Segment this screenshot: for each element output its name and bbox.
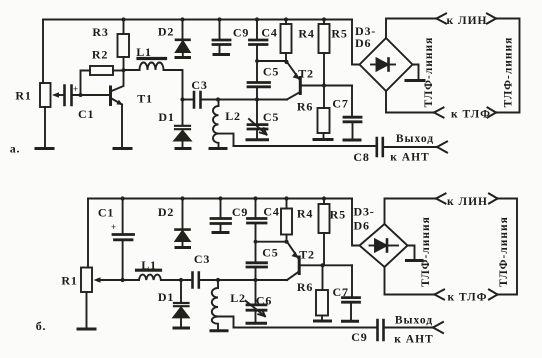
arrow к ТЛФ left (434, 108, 444, 118)
ground D1 B (174, 327, 189, 330)
wire L1 to C3 B (161, 279, 192, 281)
svg-text:C4: C4 (261, 26, 277, 40)
svg-text:C8: C8 (353, 150, 369, 164)
wire R3 top lead (123, 20, 125, 35)
svg-text:R4: R4 (297, 207, 313, 221)
wire D2 lead (182, 20, 184, 40)
svg-text:C5: C5 (263, 110, 279, 124)
arrow output (437, 142, 447, 153)
svg-text:R5: R5 (330, 208, 346, 222)
wire C7 bottom lead (352, 123, 354, 138)
wire C1 lead B (122, 199, 124, 234)
ground R6 B (315, 320, 331, 323)
svg-text:C5: C5 (262, 246, 278, 260)
wire D2 anode lead (182, 52, 184, 56)
labels circuit A (10, 15, 515, 164)
svg-text:ТЛФ-линия: ТЛФ-линия (498, 216, 510, 287)
svg-text:T2: T2 (298, 67, 314, 81)
wire bridge top to line (386, 19, 437, 39)
node base R5 R6 (322, 83, 326, 87)
labels circuit B (36, 196, 510, 346)
node R4 rail B (284, 196, 288, 200)
diode D2 cathode bar B (176, 228, 190, 231)
svg-text:R3: R3 (92, 25, 108, 39)
node emitter R4 (284, 60, 288, 64)
svg-text:+: + (111, 222, 116, 232)
diode D1 triangle B (174, 308, 189, 318)
capacitor C4 plates (250, 40, 268, 45)
ground trimmer C6 B (247, 322, 266, 325)
wire rail to bridge (352, 20, 360, 65)
wire R6 bottom lead (323, 133, 325, 138)
bridge diode lead right B (387, 245, 398, 247)
wire left vertical B (87, 199, 89, 268)
wire R4 bottom lead B (286, 235, 288, 242)
node D2 rail (180, 17, 184, 21)
resistor R5 body B (319, 204, 330, 233)
ground trimmer C5 (247, 138, 268, 141)
node D2 rail B (180, 196, 184, 200)
arrow к ЛИН right (487, 14, 496, 24)
svg-text:L2: L2 (225, 109, 241, 123)
svg-text:R2: R2 (92, 48, 108, 62)
ground C7 B (343, 320, 358, 323)
transistor T2 base wire (302, 85, 353, 87)
wire bottom rail B (234, 327, 377, 329)
wire R4 top lead B (286, 199, 288, 209)
svg-text:C9: C9 (351, 330, 367, 344)
arrow к ЛИН right B (489, 194, 498, 204)
svg-text:C7: C7 (333, 285, 349, 299)
bridge diode triangle (377, 59, 389, 71)
resistor R1 body B (81, 268, 92, 293)
wire R6 top lead B (322, 265, 324, 290)
resistor R3 body (118, 34, 130, 57)
resistor R5 body (319, 24, 330, 53)
wire signal line B (200, 279, 287, 281)
resistor R6 body B (316, 290, 328, 316)
bridge D3-D6 diamond (360, 38, 413, 91)
trimmer C5 arrow (249, 119, 267, 135)
svg-text:б.: б. (36, 319, 47, 333)
bridge D3-D6 diamond B (360, 224, 408, 267)
svg-text:C5: C5 (263, 65, 279, 79)
transistor T2 emitter B (287, 242, 299, 259)
wire R1 bottom lead B (86, 292, 88, 328)
wire R2 right lead (113, 70, 124, 72)
wire rail to bridge B (352, 199, 360, 246)
wire C5 bottom lead (256, 88, 258, 100)
node C4 rail B (253, 196, 257, 200)
trimmer capacitor C6 plates B (247, 305, 266, 310)
capacitor C3 plates (194, 92, 201, 108)
wire C9 lead B (220, 199, 222, 218)
arrow output B (433, 322, 443, 333)
inductor L2 coil (213, 100, 219, 148)
trimmer capacitor C5 plates (248, 125, 267, 129)
arrowhead R1 wiper B (94, 277, 101, 283)
capacitor C5 plates B (247, 263, 267, 267)
svg-text:L1: L1 (136, 45, 152, 59)
svg-text:R1: R1 (61, 274, 77, 288)
node C5 signal (255, 97, 259, 101)
node base R2 (79, 93, 83, 97)
bridge diode lead left B (370, 245, 376, 247)
wire wiper B (100, 279, 140, 281)
node C4 R4 B (254, 240, 258, 244)
wire bridge bottom B (385, 267, 435, 295)
wire C9 to antenna B (385, 327, 434, 329)
svg-text:а.: а. (10, 142, 21, 156)
transistor T1 base bar (109, 87, 112, 105)
wire signal line (183, 99, 288, 101)
wire R4 bottom lead (285, 53, 287, 62)
svg-text:R1: R1 (15, 89, 31, 103)
inductor L1 coil (140, 63, 164, 70)
arrowhead T1 emitter (116, 100, 123, 105)
svg-text:Выход: Выход (395, 315, 433, 327)
node R5 rail B (322, 196, 326, 200)
wire R3 bottom lead (123, 57, 125, 71)
ground bridge B (407, 259, 423, 262)
svg-text:к ТЛФ: к ТЛФ (448, 292, 488, 304)
capacitor C1 plates B (113, 235, 134, 240)
bridge diode cathode bar (387, 59, 390, 71)
wire C9 bottom lead B (220, 225, 222, 231)
wire C4 to C5 (256, 61, 258, 81)
arrowhead T2 emitter (293, 73, 300, 79)
ground T1 (114, 147, 131, 150)
trimmer C6 arrow B (246, 301, 266, 316)
wire D1 anode B (180, 317, 182, 326)
inductor L2 coil B (212, 280, 218, 329)
svg-text:D3-: D3- (354, 205, 375, 219)
resistor R2 body (90, 66, 113, 75)
arrow к ТЛФ right B (489, 290, 498, 300)
arrowhead T2 emitter B (292, 252, 299, 258)
junction dots circuit B (94, 196, 327, 282)
node base R5 R6 B (320, 263, 324, 267)
svg-text:C3: C3 (191, 78, 207, 92)
ground D1 (176, 147, 190, 150)
wire C4 to C5 B (255, 242, 257, 262)
svg-text:D6: D6 (355, 36, 371, 50)
wire top rail (43, 19, 352, 21)
wire bridge ground B (408, 246, 415, 259)
resistor R6 body (318, 108, 330, 133)
node C4 rail (255, 17, 259, 21)
svg-text:T2: T2 (299, 248, 315, 262)
transistor T2 emitter (287, 62, 300, 80)
wire C1 to base node (73, 94, 110, 96)
wire C7 top lead B (351, 265, 353, 296)
wire R4 top lead (285, 20, 287, 25)
junction dots circuit A (52, 17, 326, 105)
bridge diode cathode bar B (386, 240, 389, 252)
transistor T2 base wire B (300, 264, 352, 266)
wire R2 left vertical (81, 71, 91, 96)
ground R1 B (78, 328, 95, 331)
node R3 rail (121, 17, 125, 21)
wire bottom rail (234, 145, 377, 147)
wire D1 anode lead (182, 141, 184, 148)
svg-text:D2: D2 (158, 25, 174, 39)
transistor T1 collector (112, 71, 124, 92)
ground D2 B (176, 246, 190, 249)
ground R6 (314, 138, 332, 141)
transistor T2 collector (287, 92, 300, 100)
capacitor C3 plates B (193, 273, 199, 288)
wire C5 bottom lead B (255, 268, 257, 280)
svg-text:D1: D1 (158, 110, 174, 124)
svg-text:R6: R6 (297, 100, 313, 114)
svg-text:ТЛФ-линия: ТЛФ-линия (503, 37, 515, 108)
capacitor C9 plates (213, 40, 230, 45)
transistor T2 collector B (287, 272, 299, 281)
wire C4 to emitter node (257, 46, 287, 61)
inductor L1 core bar (138, 57, 166, 60)
svg-text:D6: D6 (354, 219, 370, 233)
wire right loop B (498, 199, 518, 295)
node R4 rail (284, 17, 288, 21)
wire R5 bottom lead (323, 53, 325, 86)
bridge diode triangle B (375, 240, 387, 252)
wire C4 to node B (256, 225, 288, 242)
svg-text:L2: L2 (230, 291, 246, 305)
svg-text:D1: D1 (158, 290, 174, 304)
svg-text:C1: C1 (78, 107, 94, 121)
diode D1 triangle (175, 131, 191, 141)
transistor T2 base bar (299, 78, 302, 94)
arrow к ТЛФ right (488, 108, 497, 118)
node C9 rail (217, 17, 221, 21)
svg-text:+: + (73, 84, 78, 94)
svg-text:R6: R6 (297, 280, 313, 294)
wire D1 lead (182, 100, 184, 126)
wire R5 top lead (323, 20, 325, 25)
node C5 signal B (253, 278, 257, 282)
wire bridge bottom to tlf (386, 91, 434, 113)
node emitter R4 B (284, 240, 288, 244)
arrow к ТЛФ left B (435, 290, 445, 300)
resistor R1 (potentiometer body) (40, 83, 51, 107)
node C1 rail B (121, 196, 125, 200)
svg-text:C7: C7 (332, 97, 348, 111)
transistor T2 base bar B (298, 257, 301, 274)
wire bridge ground (413, 65, 419, 80)
wire C4 lead (256, 20, 258, 39)
wire R5 bottom lead B (323, 233, 325, 265)
capacitor C7 plates (344, 117, 361, 122)
wire trimmer bottom lead (256, 130, 258, 138)
node collector L1 (121, 68, 125, 72)
svg-text:к ЛИН: к ЛИН (447, 196, 488, 208)
diode D2 triangle (176, 41, 190, 52)
wire C9 bottom lead (219, 46, 221, 53)
bridge diode lead left (371, 64, 377, 66)
wire C7 bottom lead B (350, 303, 352, 319)
ground R1 (36, 147, 53, 150)
wire wiper to C1 (58, 94, 63, 96)
node D1 B (179, 278, 183, 282)
svg-text:L1: L1 (141, 258, 157, 272)
ground bridge (406, 79, 424, 82)
diode D2 triangle B (176, 231, 190, 241)
wire top rail B (88, 198, 352, 200)
node C4 R4 (255, 59, 259, 63)
node R5 rail (322, 17, 326, 21)
svg-text:к АНТ: к АНТ (390, 152, 429, 164)
node C9 rail B (218, 196, 222, 200)
capacitor C9 plates B (211, 219, 231, 224)
wire C1 bottom lead B (122, 241, 124, 280)
CIRCUIT B (bottom) (78, 194, 517, 341)
ground D2 (176, 56, 190, 59)
svg-text:C6: C6 (256, 294, 272, 308)
svg-text:T1: T1 (137, 92, 153, 106)
wire L2 tap B (218, 317, 234, 328)
capacitor C7 plates B (343, 298, 360, 303)
arrowhead R1 wiper (52, 92, 59, 98)
wire right loop (496, 19, 520, 113)
bridge diode lead right (389, 64, 396, 66)
wire R5 top lead B (323, 199, 325, 205)
wire D2 lead B (182, 199, 184, 230)
wire trimmer C5 top lead (256, 100, 258, 124)
svg-text:к ТЛФ: к ТЛФ (451, 109, 491, 121)
ground C9 B (213, 231, 228, 234)
wire bridge top to line B (385, 199, 437, 225)
capacitor C9 output plates B (378, 320, 384, 340)
svg-text:C3: C3 (194, 252, 210, 266)
ground L2 (210, 147, 226, 150)
wire D1 lead B (180, 280, 182, 303)
svg-text:C9: C9 (233, 26, 249, 40)
diode D2 cathode bar (176, 38, 190, 41)
wire L2 tap (219, 134, 234, 146)
svg-text:R4: R4 (298, 27, 314, 41)
wire R1 bottom lead (44, 107, 46, 147)
node L2 (216, 97, 220, 101)
arrow к ЛИН left B (436, 194, 446, 204)
svg-text:C4: C4 (263, 205, 279, 219)
wire left vertical (42, 20, 44, 84)
svg-text:C1: C1 (98, 206, 114, 220)
transistor T1 emitter (112, 99, 123, 148)
svg-text:C9: C9 (232, 205, 248, 219)
capacitor C8 plates (377, 138, 383, 156)
node L2 B (216, 278, 220, 282)
resistor R4 body B (281, 209, 292, 235)
diode D1 cathode bars (175, 126, 190, 129)
diode D1 cathode bars B (174, 303, 189, 306)
inductor L1 coil B (139, 275, 161, 280)
wire R6 bottom lead B (321, 316, 323, 320)
wire C4 lead B (255, 199, 257, 218)
capacitor C1 plates (65, 86, 72, 106)
svg-text:Выход: Выход (396, 133, 434, 145)
ground C7 (344, 139, 360, 142)
node C1 wiper B (121, 278, 125, 282)
svg-text:R5: R5 (331, 27, 347, 41)
inductor L1 core bar B (137, 269, 161, 272)
wire C9 lead (219, 20, 221, 39)
wire trimmer bottom lead B (255, 311, 257, 321)
ground C9 (214, 53, 229, 56)
wire C8 to antenna (384, 146, 437, 148)
ground L2 B (211, 329, 227, 332)
wire L1 to C3 node (124, 70, 183, 100)
svg-text:к ЛИН: к ЛИН (447, 15, 488, 27)
node D1 C3 (180, 97, 184, 101)
wire R6 top lead (323, 86, 325, 109)
svg-text:к АНТ: к АНТ (394, 334, 433, 346)
wire D2 anode B (182, 241, 184, 246)
capacitor C5 plates (248, 83, 270, 87)
svg-text:D2: D2 (158, 205, 174, 219)
wire C7 top lead (351, 86, 353, 117)
capacitor C4 plates B (248, 219, 267, 224)
svg-text:ТЛФ-линия: ТЛФ-линия (420, 216, 432, 287)
wire trimmer C6 top lead B (255, 280, 257, 304)
resistor R4 body (281, 24, 292, 53)
svg-text:ТЛФ-линия: ТЛФ-линия (423, 37, 435, 108)
arrow к ЛИН left (437, 14, 447, 24)
